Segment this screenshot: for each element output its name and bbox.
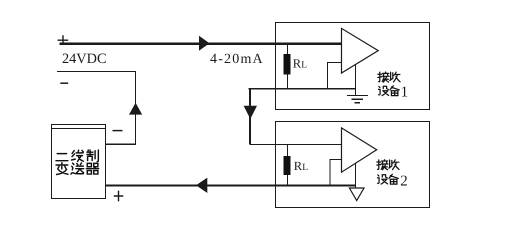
- ground (signal, open triangle) receiver 2: [349, 188, 364, 201]
- op-amp U2: [342, 128, 377, 172]
- label 接收 设备2 (hand-drawn glyphs): [377, 160, 399, 184]
- node - label at transmitter terminal: [113, 130, 123, 132]
- label 二线制 变送器 (hand-drawn glyphs): [56, 150, 99, 174]
- arrow: current down toward receiver 2: [244, 106, 257, 119]
- glyph 接: [377, 160, 388, 170]
- wire: link down from receiver1 to receiver2: [249, 89, 251, 145]
- glyph 接: [378, 72, 389, 82]
- glyph 设: [377, 175, 387, 184]
- wire: supply minus down to transmitter: [57, 71, 136, 144]
- wire: return line from receivers to transmitter +: [106, 185, 357, 187]
- ground (earth) receiver 1: [347, 96, 368, 103]
- glyph 送: [71, 163, 84, 174]
- arrow: current up toward supply minus: [129, 103, 142, 115]
- svg-text:2: 2: [400, 174, 408, 190]
- glyph 备: [390, 86, 399, 96]
- wire: op-amp2 ground lead: [355, 163, 357, 188]
- svg-text:L: L: [302, 163, 308, 173]
- glyph 制: [87, 150, 98, 162]
- svg-text:1: 1: [401, 85, 409, 101]
- resistor RL1 leads: [287, 44, 289, 89]
- glyph 线: [72, 150, 84, 161]
- resistor RL1 body: [284, 54, 291, 75]
- resistor RL2 body: [284, 156, 291, 175]
- arrow: current toward transmitter +: [196, 178, 207, 193]
- glyph 二: [56, 154, 68, 161]
- transmitter box: [52, 125, 106, 199]
- wire: op-amp2 lower input stub: [330, 160, 342, 186]
- node + terminal of 24VDC supply: [58, 35, 69, 45]
- arrow: current direction on top supply line: [199, 36, 210, 51]
- receiver 2 box: [276, 122, 430, 208]
- svg-text:L: L: [301, 60, 307, 70]
- op-amp U1: [342, 28, 379, 73]
- svg-text:24VDC: 24VDC: [62, 51, 106, 67]
- svg-text:4-20mA: 4-20mA: [210, 52, 264, 67]
- receiver 1 box: [276, 23, 430, 110]
- transmitter box inner top line: [52, 128, 106, 130]
- glyph 收: [389, 160, 399, 170]
- node + label at transmitter terminal: [114, 191, 124, 202]
- wire: op-amp1 lower input stub: [327, 63, 342, 89]
- glyph 器: [86, 163, 98, 174]
- glyph 收: [390, 72, 400, 82]
- resistor RL2 leads: [287, 145, 289, 187]
- wire: receiver1 bottom return: [249, 88, 356, 90]
- wire: op-amp1 ground lead: [355, 64, 357, 96]
- glyph 变: [56, 163, 68, 175]
- glyph 设: [378, 86, 388, 95]
- label 接收 设备1 (hand-drawn glyphs): [378, 72, 400, 96]
- wire: +24V top supply line: [60, 43, 342, 45]
- node - terminal of 24VDC supply: [60, 82, 68, 84]
- glyph 备: [389, 174, 398, 184]
